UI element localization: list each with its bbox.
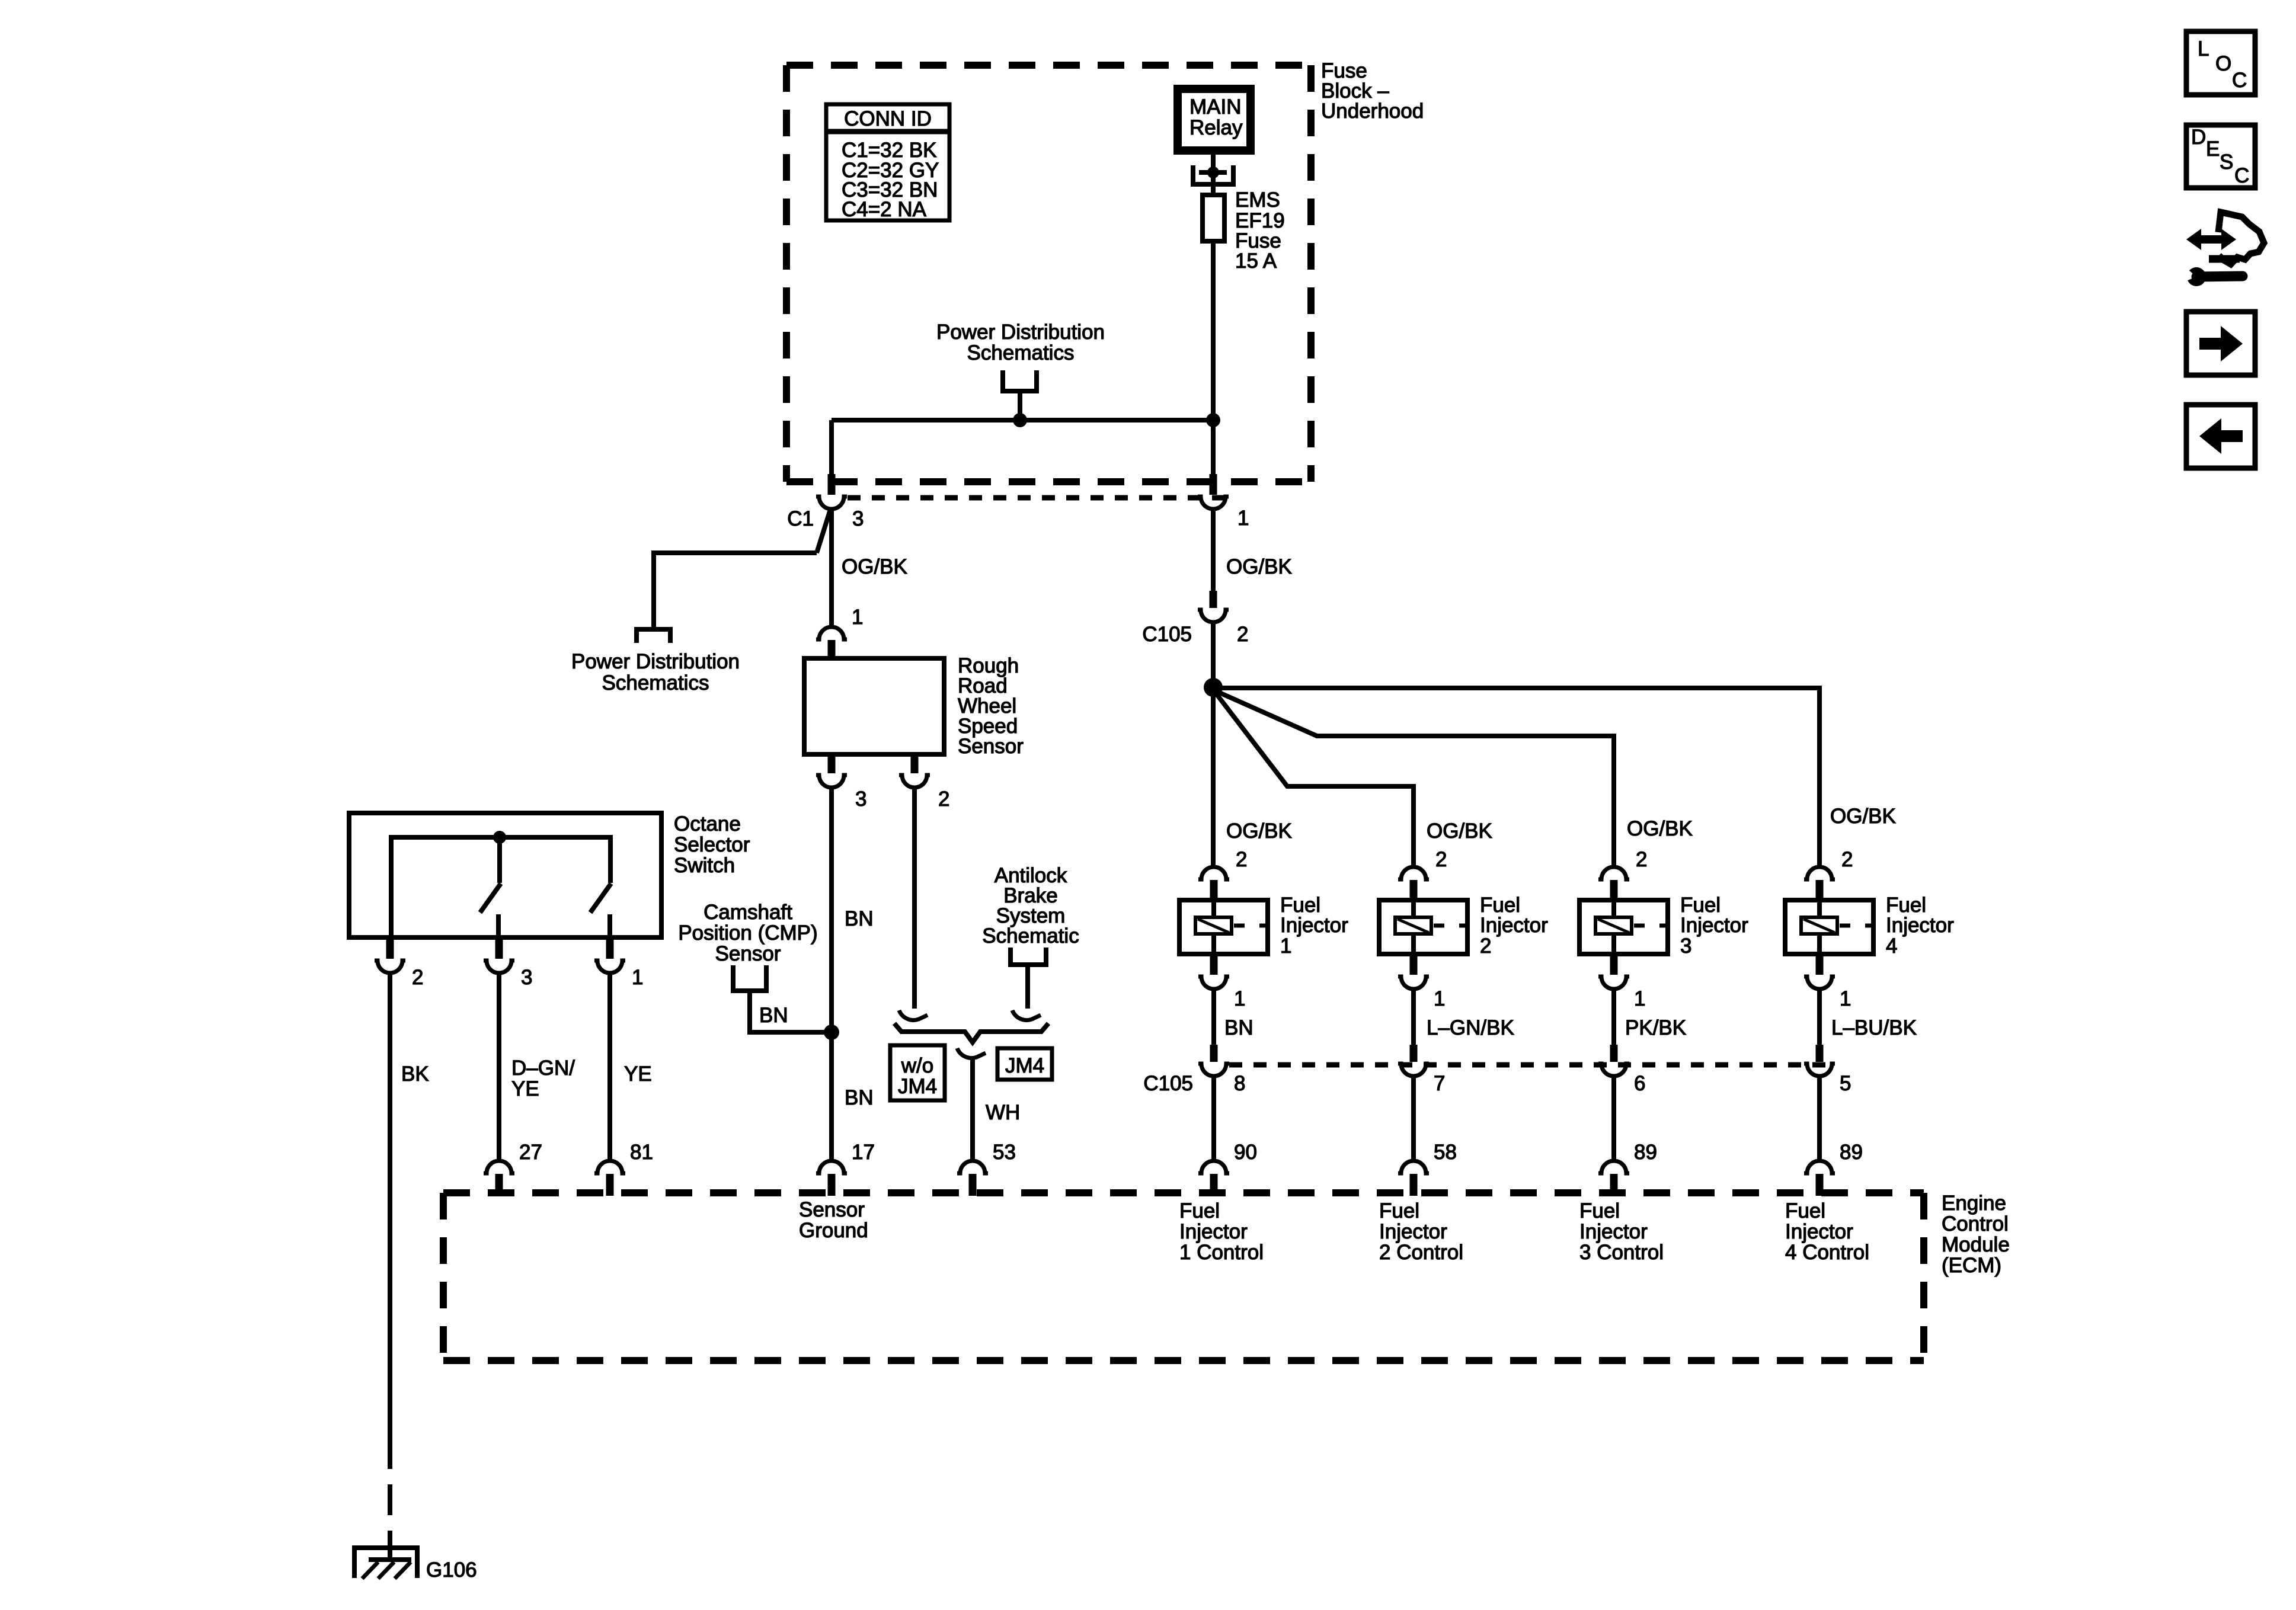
svg-text:15 A: 15 A bbox=[1235, 249, 1277, 273]
node: switch bus junction bbox=[493, 831, 506, 844]
fuse F: EMS EF19 Fuse 15 A bbox=[1203, 188, 1285, 273]
svg-text:58: 58 bbox=[1434, 1141, 1457, 1164]
svg-text:YE: YE bbox=[511, 1077, 539, 1100]
w/o JM4 option box bbox=[890, 1045, 945, 1100]
injector 1 internal wire bbox=[1211, 900, 1216, 954]
ground G106 symbol bbox=[354, 1548, 417, 1579]
injector 3 coil element bbox=[1595, 917, 1632, 934]
C1 pin 1 connector arc bbox=[1198, 497, 1229, 509]
ECM pin 17 stub bbox=[828, 1174, 836, 1196]
svg-text:Fuel: Fuel bbox=[1179, 1199, 1220, 1222]
wire feed to injector 4 bbox=[1213, 688, 1819, 867]
wire C105 to ECM (injector 3) bbox=[1611, 1076, 1616, 1159]
C105 lower stub (injector 3) bbox=[1610, 1045, 1618, 1062]
injector 3 pin 1 stub bbox=[1610, 956, 1618, 975]
svg-text:Relay: Relay bbox=[1189, 116, 1243, 139]
wire D-GN/YE switch pin 3 to ECM pin 27 bbox=[497, 973, 501, 1159]
svg-text:Control: Control bbox=[1942, 1212, 2009, 1235]
fuel injector 1 box bbox=[1179, 900, 1268, 954]
wire C105 to ECM (injector 4) bbox=[1817, 1076, 1822, 1159]
svg-text:OG/BK: OG/BK bbox=[1830, 805, 1896, 828]
C1 pin 3 stub bbox=[828, 474, 836, 495]
ECM pin 17 connector dome bbox=[816, 1161, 847, 1173]
svg-text:2: 2 bbox=[412, 966, 423, 989]
svg-text:Injector: Injector bbox=[1480, 914, 1548, 937]
svg-text:E: E bbox=[2206, 137, 2220, 161]
svg-text:Switch: Switch bbox=[674, 854, 735, 877]
connector hook (antilock wire end) bbox=[1012, 1010, 1041, 1020]
switch pin 3 internal stub bbox=[496, 914, 501, 940]
icon: forward arrow box bbox=[2186, 312, 2255, 375]
svg-text:Ground: Ground bbox=[799, 1219, 868, 1242]
wire bus inside fuse block bbox=[832, 418, 1213, 422]
svg-text:BK: BK bbox=[401, 1062, 429, 1086]
wire C105 pin2 to junction bbox=[1211, 622, 1216, 687]
injector 1 pin 2 connector dome bbox=[1198, 867, 1229, 879]
svg-text:Injector: Injector bbox=[1579, 1220, 1648, 1243]
wire bracket stem to bus bbox=[1018, 391, 1022, 420]
wire C105 to ECM (injector 1) bbox=[1211, 1076, 1216, 1159]
bracket for power distribution schematics (top) bbox=[1003, 370, 1037, 391]
injector 2 internal wire bbox=[1411, 900, 1416, 954]
svg-text:Camshaft: Camshaft bbox=[703, 901, 792, 924]
wire internal bus of switch bbox=[391, 837, 610, 940]
svg-text:53: 53 bbox=[993, 1141, 1016, 1164]
svg-text:2: 2 bbox=[1237, 623, 1248, 646]
wire bus left end down to C1 pin 3 bbox=[829, 420, 834, 478]
ECM pin 81 connector dome bbox=[594, 1161, 625, 1173]
switch pin 1 internal stub bbox=[607, 914, 612, 940]
connector C105 dotted line (lower) bbox=[1229, 1062, 1835, 1068]
wire injector 1 to C105 bbox=[1211, 989, 1216, 1045]
wire BN sensor pin3 to ECM pin 17 bbox=[829, 788, 834, 1159]
svg-text:C1: C1 bbox=[787, 507, 814, 530]
C105 pin 2 connector arc bbox=[1198, 610, 1229, 622]
svg-text:S: S bbox=[2220, 151, 2233, 174]
injector 4 pin 1 stub bbox=[1816, 956, 1824, 975]
switch blade SW2 bbox=[590, 884, 611, 913]
wire injector 3 to C105 bbox=[1611, 989, 1616, 1045]
svg-text:2: 2 bbox=[1236, 848, 1247, 871]
injector 1 dashed link bbox=[1234, 924, 1268, 928]
svg-text:3: 3 bbox=[852, 507, 864, 530]
relay pin bracket symbol bbox=[1193, 165, 1233, 184]
injector 4 pin 1 connector arc bbox=[1804, 977, 1835, 989]
ECM pin 89 connector dome bbox=[1804, 1161, 1835, 1173]
svg-text:Injector: Injector bbox=[1379, 1220, 1447, 1243]
wire injector 2 to C105 bbox=[1411, 989, 1416, 1045]
svg-text:Sensor: Sensor bbox=[958, 735, 1024, 758]
wire BK dashed continuation bbox=[388, 1484, 392, 1515]
wire feed to injector 2 bbox=[1215, 692, 1414, 867]
svg-text:WH: WH bbox=[986, 1101, 1020, 1124]
svg-text:Injector: Injector bbox=[1785, 1220, 1853, 1243]
svg-text:2 Control: 2 Control bbox=[1379, 1241, 1463, 1264]
svg-text:Engine: Engine bbox=[1942, 1192, 2006, 1215]
wire diagonal from C1 pin 3 bbox=[817, 510, 830, 553]
node: BN junction on sensor ground wire bbox=[824, 1025, 839, 1040]
node: bus / relay feed junction bbox=[1206, 413, 1220, 427]
fuel injector 3 box bbox=[1579, 900, 1668, 954]
svg-text:1: 1 bbox=[1280, 934, 1291, 958]
svg-text:C105: C105 bbox=[1142, 623, 1192, 646]
node: bus / PDS stem junction bbox=[1013, 413, 1027, 427]
switch blade SW1 bbox=[480, 884, 501, 913]
svg-text:1: 1 bbox=[1840, 987, 1851, 1010]
C105 lower connector arc (injector 1) bbox=[1198, 1064, 1229, 1076]
wire injector 4 to C105 bbox=[1817, 989, 1822, 1045]
svg-text:Schematic: Schematic bbox=[982, 924, 1079, 948]
sensor pin 3 connector arc bbox=[816, 775, 847, 788]
svg-text:81: 81 bbox=[630, 1141, 653, 1164]
injector 2 pin 1 connector arc bbox=[1398, 977, 1429, 989]
octane switch pin 2 connector arc bbox=[375, 961, 405, 973]
svg-text:2: 2 bbox=[1841, 848, 1853, 871]
wire horizontal to PDS branch bbox=[654, 550, 817, 555]
svg-text:3 Control: 3 Control bbox=[1579, 1241, 1664, 1264]
C105 pin 2 stub bbox=[1210, 591, 1217, 608]
svg-text:Selector: Selector bbox=[674, 833, 750, 856]
svg-text:Power Distribution: Power Distribution bbox=[936, 321, 1105, 344]
C105 lower stub (injector 4) bbox=[1816, 1045, 1824, 1062]
C1 pin 1 stub bbox=[1210, 474, 1217, 495]
svg-text:7: 7 bbox=[1434, 1072, 1445, 1095]
svg-text:Sensor: Sensor bbox=[799, 1198, 865, 1221]
svg-text:OG/BK: OG/BK bbox=[1226, 555, 1292, 578]
injector 2 pin 2 connector dome bbox=[1398, 867, 1429, 879]
svg-text:L: L bbox=[2198, 37, 2209, 60]
JM4 option box bbox=[997, 1048, 1052, 1080]
svg-text:Injector: Injector bbox=[1680, 914, 1748, 937]
svg-text:90: 90 bbox=[1234, 1141, 1257, 1164]
wire fuse to bus junction bbox=[1211, 241, 1216, 478]
octane switch pin 3 stub bbox=[495, 940, 503, 959]
svg-text:YE: YE bbox=[624, 1062, 652, 1086]
injector 1 pin 2 stub bbox=[1210, 880, 1218, 900]
svg-text:CONN ID: CONN ID bbox=[844, 107, 932, 130]
svg-text:PK/BK: PK/BK bbox=[1625, 1016, 1686, 1039]
svg-text:C105: C105 bbox=[1143, 1072, 1193, 1095]
wire YE switch pin 1 to ECM pin 81 bbox=[607, 973, 612, 1159]
octane switch pin 1 stub bbox=[606, 940, 614, 959]
svg-text:2: 2 bbox=[1636, 848, 1647, 871]
fuel injector 2 box bbox=[1379, 900, 1467, 954]
ECM pin 89 stub bbox=[1610, 1174, 1618, 1196]
C1 pin 3 connector arc bbox=[816, 497, 847, 509]
injector 3 pin 2 connector dome bbox=[1598, 867, 1629, 879]
injector 4 dashed link bbox=[1840, 924, 1873, 928]
svg-text:OG/BK: OG/BK bbox=[1627, 817, 1693, 840]
svg-text:3: 3 bbox=[855, 788, 866, 811]
svg-text:Octane: Octane bbox=[674, 812, 741, 836]
svg-text:4 Control: 4 Control bbox=[1785, 1241, 1869, 1264]
svg-text:OG/BK: OG/BK bbox=[1427, 820, 1492, 843]
svg-text:27: 27 bbox=[519, 1141, 542, 1164]
svg-text:5: 5 bbox=[1840, 1072, 1851, 1095]
svg-text:1 Control: 1 Control bbox=[1179, 1241, 1264, 1264]
svg-text:Fuel: Fuel bbox=[1785, 1199, 1825, 1222]
injector 3 pin 2 stub bbox=[1610, 880, 1618, 900]
svg-text:G106: G106 bbox=[426, 1558, 477, 1582]
svg-text:89: 89 bbox=[1840, 1141, 1863, 1164]
svg-text:1: 1 bbox=[852, 606, 863, 629]
injector 2 pin 2 stub bbox=[1410, 880, 1418, 900]
svg-text:D: D bbox=[2191, 126, 2206, 149]
svg-text:OG/BK: OG/BK bbox=[842, 555, 907, 578]
svg-text:JM4: JM4 bbox=[1005, 1054, 1044, 1077]
ECM pin 58 stub bbox=[1410, 1174, 1418, 1196]
ECM pin 89 connector dome bbox=[1598, 1161, 1629, 1173]
svg-text:BN: BN bbox=[845, 1086, 874, 1109]
injector 4 pin 2 connector dome bbox=[1804, 867, 1835, 879]
octane switch pin 3 connector arc bbox=[484, 961, 514, 973]
svg-text:1: 1 bbox=[632, 966, 643, 989]
wire C1 pin1 to C105 pin2 bbox=[1211, 509, 1216, 591]
svg-text:BN: BN bbox=[759, 1004, 788, 1027]
injector 4 coil element bbox=[1801, 917, 1837, 934]
svg-text:O: O bbox=[2215, 52, 2231, 75]
svg-text:MAIN: MAIN bbox=[1189, 95, 1242, 119]
ECM pin 53 connector dome bbox=[957, 1161, 988, 1173]
svg-text:Fuel: Fuel bbox=[1379, 1199, 1419, 1222]
connector C1 dotted line bbox=[848, 495, 1229, 501]
svg-text:C: C bbox=[2232, 69, 2247, 92]
sensor pin 2 stub bbox=[911, 757, 919, 773]
octane switch pin 2 stub bbox=[386, 940, 394, 959]
bracket from CMP sensor bbox=[733, 965, 766, 991]
wire feed to injector 3 bbox=[1216, 691, 1614, 867]
C105 lower stub (injector 2) bbox=[1410, 1045, 1418, 1062]
wire feed to injector 1 bbox=[1211, 687, 1216, 867]
svg-text:BN: BN bbox=[845, 907, 874, 930]
svg-text:Injector: Injector bbox=[1280, 914, 1348, 937]
node: injector feed junction bbox=[1204, 678, 1223, 697]
wire antilock bracket down bbox=[1025, 965, 1030, 1009]
wire BK from switch pin 2 bbox=[388, 973, 392, 1469]
svg-text:Schematics: Schematics bbox=[602, 671, 709, 694]
wire C1 pin3 down to sensor pin 1 bbox=[829, 509, 834, 626]
svg-text:Module: Module bbox=[1942, 1233, 2010, 1256]
wire down to PDS bracket bbox=[651, 550, 656, 629]
fuel injector 4 box bbox=[1785, 900, 1873, 954]
svg-text:1: 1 bbox=[1634, 987, 1645, 1010]
C105 lower connector arc (injector 4) bbox=[1804, 1064, 1835, 1076]
injector 4 pin 2 stub bbox=[1816, 880, 1824, 900]
svg-text:4: 4 bbox=[1886, 934, 1897, 958]
svg-text:Underhood: Underhood bbox=[1321, 100, 1424, 123]
sensor pin 3 stub bbox=[828, 757, 836, 773]
icon: vehicle diagnostic (arrow, outline, wrench) bbox=[2180, 212, 2264, 286]
svg-text:2: 2 bbox=[938, 788, 949, 811]
injector 2 pin 1 stub bbox=[1410, 956, 1418, 975]
injector 2 dashed link bbox=[1434, 924, 1467, 928]
svg-text:8: 8 bbox=[1234, 1072, 1245, 1095]
wire relay to fuse bbox=[1211, 155, 1216, 195]
ECM pin 27 stub bbox=[495, 1174, 503, 1196]
CONN ID table bbox=[826, 104, 949, 221]
wire C105 to ECM (injector 2) bbox=[1411, 1076, 1416, 1159]
C105 lower stub (injector 1) bbox=[1210, 1045, 1218, 1062]
wire WH to ECM pin 53 bbox=[970, 1057, 975, 1159]
svg-text:EMS: EMS bbox=[1235, 188, 1280, 212]
ECM pin 27 connector dome bbox=[484, 1161, 514, 1173]
injector 3 dashed link bbox=[1634, 924, 1668, 928]
svg-text:w/o: w/o bbox=[901, 1054, 933, 1077]
svg-text:D–GN/: D–GN/ bbox=[511, 1057, 575, 1080]
svg-text:1: 1 bbox=[1234, 987, 1245, 1010]
svg-text:BN: BN bbox=[1224, 1016, 1253, 1039]
svg-text:3: 3 bbox=[1680, 934, 1691, 958]
injector 1 pin 1 connector arc bbox=[1198, 977, 1229, 989]
bracket to power distribution schematics (bottom) bbox=[637, 629, 670, 643]
ECM pin 90 stub bbox=[1210, 1174, 1218, 1196]
svg-text:Injector: Injector bbox=[1886, 914, 1954, 937]
ECM pin 89 stub bbox=[1816, 1174, 1824, 1196]
svg-text:Power Distribution: Power Distribution bbox=[571, 650, 740, 673]
ECM pin 90 connector dome bbox=[1198, 1161, 1229, 1173]
injector 3 internal wire bbox=[1611, 900, 1616, 954]
Octane Selector Switch box bbox=[349, 813, 661, 937]
svg-text:2: 2 bbox=[1435, 848, 1447, 871]
svg-text:Position (CMP): Position (CMP) bbox=[678, 921, 817, 945]
ECM pin 81 stub bbox=[606, 1174, 614, 1196]
svg-text:C: C bbox=[2234, 164, 2249, 187]
ECM pin 58 connector dome bbox=[1398, 1161, 1429, 1173]
Rough Road Wheel Speed Sensor box bbox=[804, 658, 944, 754]
svg-text:OG/BK: OG/BK bbox=[1226, 820, 1292, 843]
ECM pin 53 stub bbox=[969, 1174, 977, 1196]
injector 1 coil element bbox=[1195, 917, 1232, 934]
svg-text:Sensor: Sensor bbox=[715, 942, 781, 965]
svg-text:L–GN/BK: L–GN/BK bbox=[1427, 1016, 1514, 1039]
svg-text:Fuel: Fuel bbox=[1579, 1199, 1620, 1222]
svg-text:JM4: JM4 bbox=[898, 1075, 937, 1098]
injector 3 pin 1 connector arc bbox=[1598, 977, 1629, 989]
injector 1 pin 1 stub bbox=[1210, 956, 1218, 975]
wire switch pole 3 bbox=[497, 837, 502, 883]
svg-text:3: 3 bbox=[521, 966, 532, 989]
C105 lower connector arc (injector 2) bbox=[1398, 1064, 1429, 1076]
octane switch pin 1 connector arc bbox=[594, 961, 625, 973]
injector 4 internal wire bbox=[1817, 900, 1822, 954]
icon: DESC box bbox=[2186, 125, 2255, 188]
svg-text:1: 1 bbox=[1434, 987, 1445, 1010]
connector hook (sensor pin 2 wire end) bbox=[899, 1010, 928, 1020]
svg-text:L–BU/BK: L–BU/BK bbox=[1831, 1016, 1917, 1039]
injector 2 coil element bbox=[1395, 917, 1431, 934]
wire sensor pin2 down to option hook bbox=[912, 788, 917, 1009]
C105 lower connector arc (injector 3) bbox=[1598, 1064, 1629, 1076]
icon: LOC box bbox=[2186, 31, 2255, 95]
sensor pin 1 stub bbox=[828, 640, 836, 659]
svg-text:(ECM): (ECM) bbox=[1942, 1254, 2001, 1277]
wire BN from CMP bracket to junction bbox=[750, 991, 829, 1032]
sensor pin 1 connector dome bbox=[816, 627, 847, 639]
svg-text:1: 1 bbox=[1237, 507, 1249, 530]
fuse block underhood dashed box bbox=[786, 65, 1311, 482]
sensor pin 2 connector arc bbox=[899, 775, 930, 788]
svg-text:Schematics: Schematics bbox=[967, 341, 1075, 364]
icon: back arrow box bbox=[2186, 405, 2255, 468]
svg-text:6: 6 bbox=[1634, 1072, 1645, 1095]
option brace bbox=[894, 1023, 1048, 1042]
Engine Control Module (ECM) dashed box bbox=[443, 1193, 1924, 1361]
bracket from antilock brake reference bbox=[1011, 948, 1046, 965]
svg-text:89: 89 bbox=[1634, 1141, 1657, 1164]
svg-text:17: 17 bbox=[852, 1141, 875, 1164]
svg-text:C4=2 NA: C4=2 NA bbox=[842, 198, 927, 221]
svg-text:Injector: Injector bbox=[1179, 1220, 1248, 1243]
connector hook (WH wire start) bbox=[957, 1048, 986, 1058]
svg-text:2: 2 bbox=[1480, 934, 1491, 958]
relay K: MAIN Relay box bbox=[1178, 89, 1251, 151]
